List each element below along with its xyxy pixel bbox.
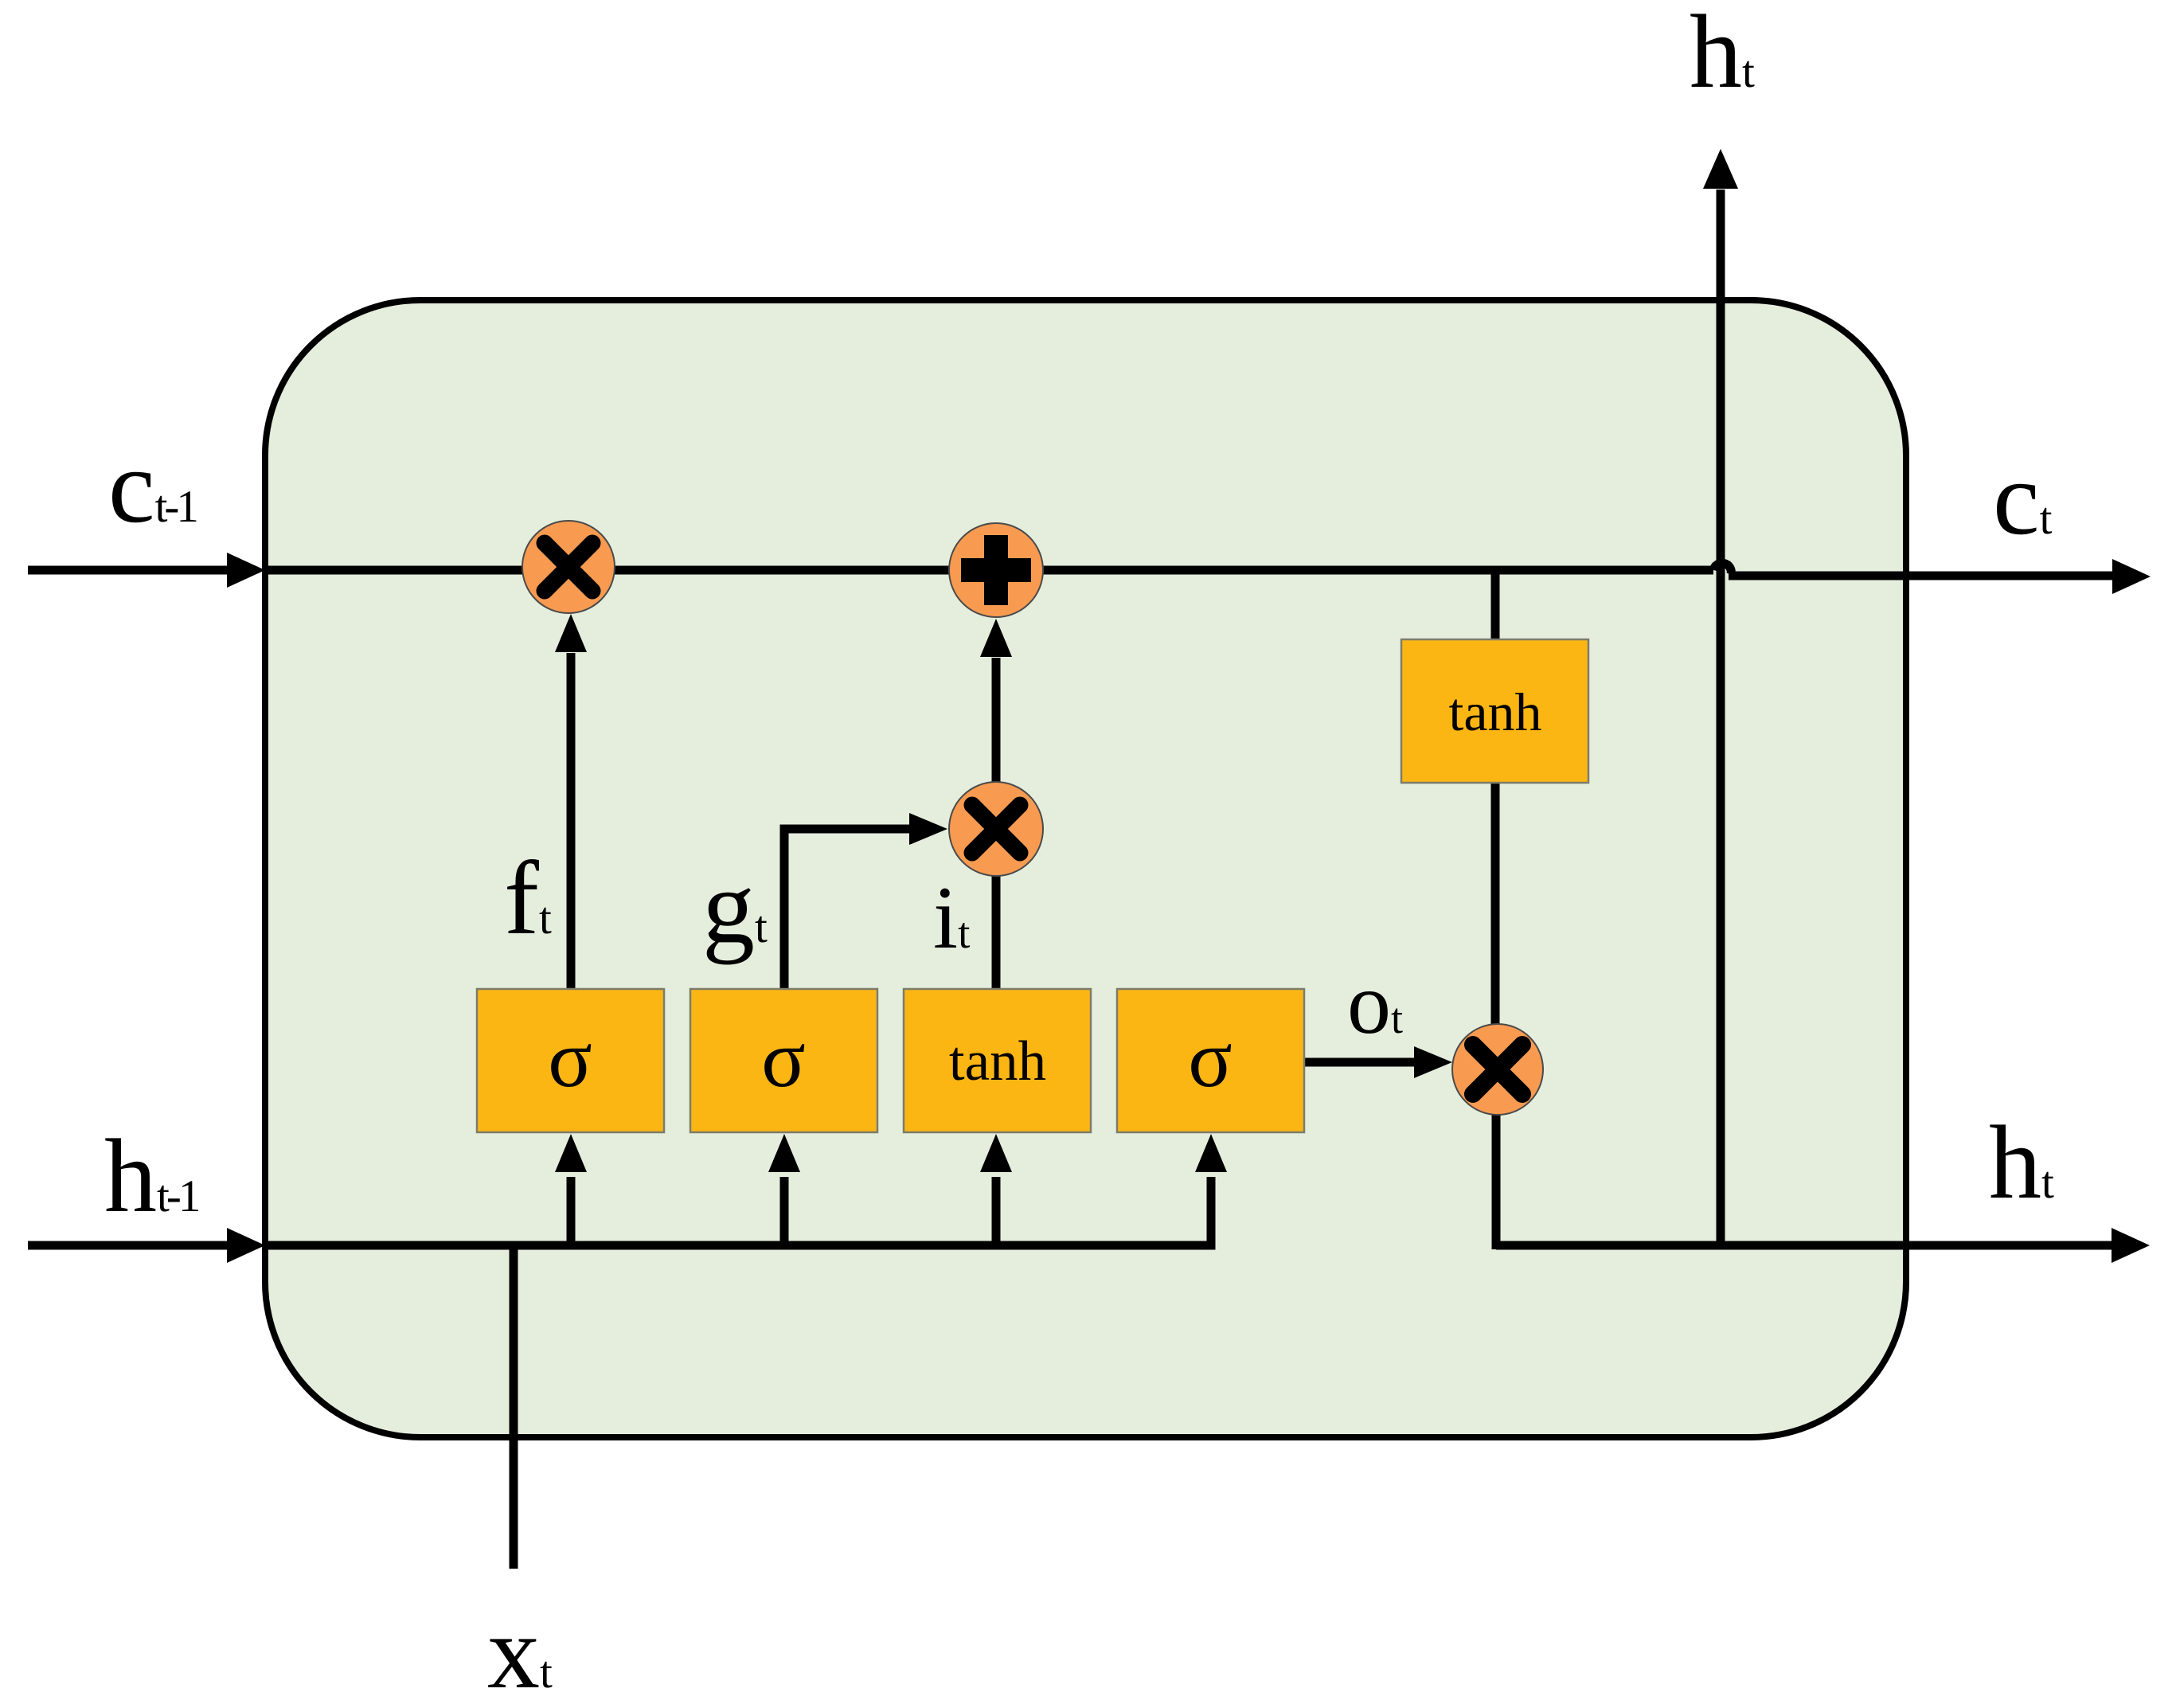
multiply node 2 (input gate product) bbox=[949, 782, 1043, 876]
wire: h_t-1 bus with elbow up to sigma gate 4 bbox=[265, 1177, 1211, 1245]
wire: i_t line from tanh gate 3 to multiply node 2 bbox=[992, 874, 1001, 989]
wire: x_t input riser bbox=[510, 1245, 518, 1569]
arrowhead: g_t into multiply node 2 bbox=[909, 813, 947, 845]
wire: cell-state line right segment bbox=[1729, 572, 2116, 580]
multiply node 3 (output gate product) bbox=[1452, 1024, 1543, 1115]
LSTM cell body bbox=[265, 300, 1906, 1437]
wire: branch up into tanh gate 3 bbox=[992, 1177, 1001, 1245]
wire: cell-state line left segment bbox=[265, 566, 1713, 575]
sigma gate 2 (candidate gate) bbox=[690, 989, 877, 1132]
tanh gate 3 (input transform) bbox=[904, 989, 1091, 1132]
tanh block on cell state output bbox=[1401, 639, 1588, 783]
wire: g_t elbow from sigma gate 2 to multiply node 2 bbox=[784, 829, 911, 989]
wire: from multiply node 2 up to add node bbox=[992, 658, 1001, 784]
wire: branch up into sigma gate 2 bbox=[780, 1177, 789, 1245]
arrowhead: into sigma gate 4 bottom bbox=[1195, 1134, 1227, 1172]
wire: o_t line from sigma gate 4 to multiply node 3 bbox=[1304, 1058, 1414, 1067]
sigma gate 4 (output gate) bbox=[1117, 989, 1304, 1132]
sigma gate 1 (forget gate) bbox=[477, 989, 664, 1132]
svg-text:tanh: tanh bbox=[949, 1030, 1046, 1092]
arrowhead: into sigma gate 2 bottom bbox=[768, 1134, 800, 1172]
wire: tanh block down to multiply node 3 bbox=[1491, 781, 1500, 1027]
wire: c_t-1 input line bbox=[28, 566, 229, 575]
arrowhead: c_t output bbox=[2112, 559, 2151, 594]
wire: branch up into sigma gate 1 bbox=[567, 1177, 576, 1245]
arrowhead: h_t top bbox=[1703, 149, 1738, 189]
multiply node 1 (forget gate product) bbox=[522, 521, 615, 613]
wire: f_t line from sigma gate 1 to multiply node 1 bbox=[567, 653, 576, 989]
arrowhead: h_t output right bbox=[2112, 1228, 2150, 1263]
svg-text:σ: σ bbox=[761, 1014, 806, 1104]
arrowhead: into sigma gate 1 bottom bbox=[555, 1134, 587, 1172]
wire: multiply node 3 down to h line bbox=[1492, 1114, 1501, 1249]
svg-text:tanh: tanh bbox=[1448, 682, 1541, 742]
wire hop over h_t vertical bbox=[1713, 563, 1731, 574]
svg-text:σ: σ bbox=[1188, 1014, 1233, 1104]
wire: cell state branch down into tanh block bbox=[1491, 570, 1500, 642]
arrowhead: o_t into multiply node 3 bbox=[1414, 1046, 1452, 1078]
add node (cell state sum) bbox=[949, 523, 1043, 617]
arrowhead: h input at cell border bbox=[227, 1228, 265, 1263]
arrowhead: into add node bottom bbox=[980, 619, 1012, 657]
wire: h_t-1 input line bbox=[28, 1241, 229, 1250]
wire: h_t output line bbox=[1496, 1241, 2114, 1250]
arrowhead: into tanh gate 3 bottom bbox=[980, 1134, 1012, 1172]
wire: h_t vertical output branch bbox=[1717, 190, 1725, 1245]
arrowhead: c input at cell border bbox=[227, 553, 265, 588]
svg-text:σ: σ bbox=[548, 1014, 592, 1104]
arrowhead: f_t into multiply node 1 bbox=[555, 614, 587, 652]
